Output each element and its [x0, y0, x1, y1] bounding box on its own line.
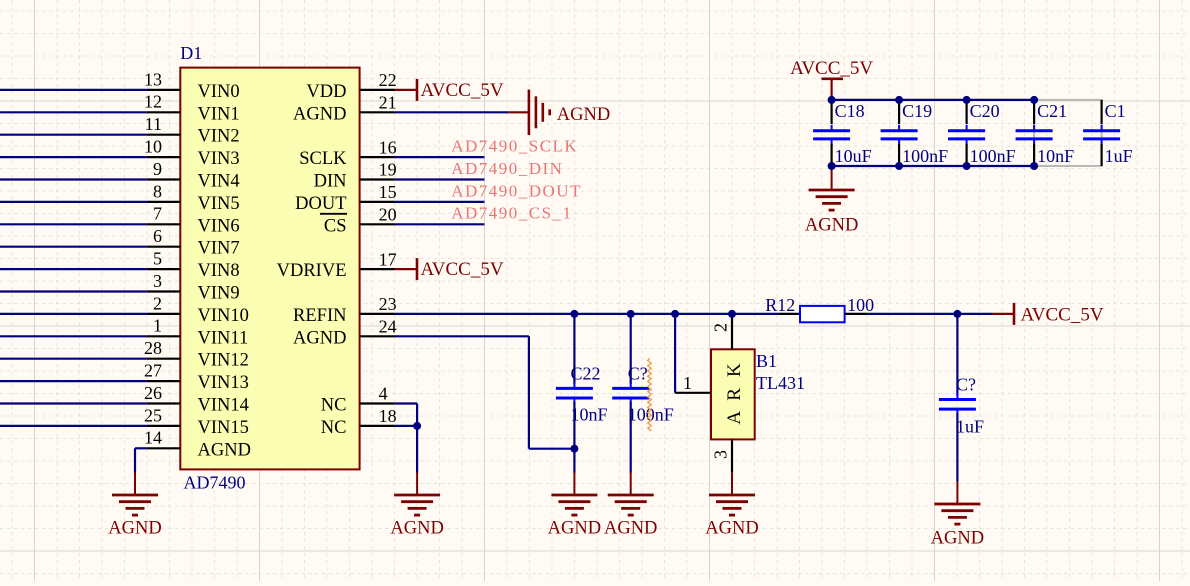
svg-text:AGND: AGND	[390, 519, 443, 539]
pin name VIN6	[198, 216, 240, 236]
svg-text:VIN9: VIN9	[198, 284, 240, 304]
label AVCC_5V (pin 17)	[421, 259, 504, 280]
pin number 26	[144, 383, 162, 403]
svg-text:VDRIVE: VDRIVE	[277, 261, 347, 281]
pin name DOUT	[295, 194, 346, 214]
wire pin24 AGND path	[395, 336, 575, 448]
svg-text:15: 15	[379, 182, 397, 202]
svg-text:7: 7	[153, 204, 162, 224]
junction (832,100)	[828, 96, 836, 104]
wire pin14 to AGND	[135, 448, 147, 472]
wire REFIN right of R12	[867, 313, 992, 315]
svg-text:27: 27	[144, 361, 162, 381]
designator D1	[180, 43, 202, 63]
pin name VIN12	[198, 351, 249, 371]
pin 27 (VIN13)	[147, 380, 181, 382]
pin name VIN7	[198, 239, 240, 259]
junction (957,314)	[953, 310, 961, 318]
resistor R12	[779, 306, 867, 322]
svg-text:12: 12	[144, 92, 162, 112]
svg-text:100nF: 100nF	[902, 146, 948, 166]
pin 3 (TL431 anode)	[731, 439, 733, 472]
pin number 18	[379, 406, 397, 426]
label AVCC_5V (right)	[1021, 305, 1104, 326]
pin number 19	[379, 160, 397, 180]
capacitor C1	[1083, 100, 1120, 166]
svg-text:C?: C?	[628, 364, 648, 384]
junction (574,449)	[570, 445, 578, 453]
svg-text:SCLK: SCLK	[299, 149, 347, 169]
pin number 7	[153, 204, 162, 224]
svg-text:C21: C21	[1037, 101, 1067, 121]
capacitor C? 1uF	[939, 314, 976, 482]
pin number 12	[144, 92, 162, 112]
svg-text:NC: NC	[321, 396, 347, 416]
pin number 9	[153, 159, 162, 179]
power port AVCC_5V (right)	[993, 303, 1015, 325]
pin name VIN1	[198, 104, 240, 124]
wire net VIN1	[0, 111, 147, 113]
designator C?	[628, 364, 648, 384]
wire net VIN4	[0, 178, 147, 180]
svg-text:10nF: 10nF	[1037, 146, 1074, 166]
svg-text:VDD: VDD	[306, 82, 346, 102]
designator C18	[835, 101, 865, 121]
pin number 1	[153, 316, 162, 336]
pin 1 (VIN11)	[147, 335, 181, 337]
svg-text:C?: C?	[956, 375, 976, 395]
pin name VIN8	[198, 261, 240, 281]
error squiggle at C?	[648, 358, 652, 431]
power port AVCC_5V (top)	[822, 79, 844, 100]
wire net VIN8	[0, 268, 147, 270]
label AGND (NC)	[390, 519, 443, 539]
pin name VIN14	[198, 396, 249, 416]
junction (631,314)	[627, 310, 635, 318]
ground AGND (1uF)	[934, 482, 980, 525]
svg-text:26: 26	[144, 383, 162, 403]
svg-text:TL431: TL431	[756, 373, 805, 393]
svg-text:21: 21	[379, 93, 397, 113]
svg-text:AGND: AGND	[293, 328, 346, 348]
svg-text:C1: C1	[1105, 101, 1126, 121]
pin number 5	[153, 249, 162, 269]
pin 10 (VIN3)	[147, 156, 181, 158]
junction (574,314)	[570, 310, 578, 318]
svg-text:10uF: 10uF	[835, 146, 872, 166]
pin number 11	[145, 114, 162, 134]
wire net VIN7	[0, 246, 147, 248]
pin 2 (TL431 cathode)	[731, 314, 733, 349]
svg-text:24: 24	[379, 317, 397, 337]
junction (899,166)	[895, 162, 903, 170]
pin 17 (VDRIVE)	[360, 268, 395, 270]
svg-text:AGND: AGND	[198, 440, 251, 460]
value 100nF	[902, 146, 948, 166]
net label AD7490_DOUT	[451, 181, 582, 200]
pin 13 (VIN0)	[147, 89, 181, 91]
svg-text:AVCC_5V: AVCC_5V	[790, 58, 873, 79]
ground AGND (C22)	[551, 473, 597, 516]
svg-text:10nF: 10nF	[571, 405, 608, 425]
svg-text:AGND: AGND	[604, 519, 657, 539]
pin name VIN9	[198, 284, 240, 304]
transistor B1 TL431 body	[711, 349, 755, 439]
svg-text:AD7490_CS_1: AD7490_CS_1	[451, 204, 572, 223]
svg-text:17: 17	[379, 249, 397, 269]
pin number 4	[379, 384, 388, 404]
TL431 internal text ARK	[724, 360, 745, 425]
pin name VDD	[306, 82, 346, 102]
pin 4 (NC)	[360, 402, 395, 404]
value 1uF	[956, 417, 984, 437]
pin 20 (CS)	[360, 223, 395, 225]
junction (417,426)	[413, 422, 421, 430]
svg-text:B1: B1	[756, 351, 777, 371]
svg-text:D1: D1	[180, 43, 202, 63]
svg-text:20: 20	[379, 205, 397, 225]
wire net VIN2	[0, 134, 147, 136]
label AVCC_5V (pin 22)	[421, 80, 504, 101]
svg-text:1: 1	[153, 316, 162, 336]
svg-text:AGND: AGND	[548, 519, 601, 539]
svg-text:C22: C22	[571, 364, 601, 384]
svg-text:AGND: AGND	[557, 105, 610, 125]
wire NC pins	[395, 404, 417, 473]
pin number 27	[144, 361, 162, 381]
svg-text:6: 6	[153, 226, 162, 246]
label AVCC_5V (top)	[790, 58, 873, 79]
pin number 10	[144, 137, 162, 157]
pin number 23	[379, 294, 397, 314]
gray box around C1	[1034, 100, 1102, 166]
junction (1034,100)	[1030, 96, 1038, 104]
svg-text:VIN6: VIN6	[198, 216, 240, 236]
svg-text:2: 2	[711, 323, 731, 332]
pin 11 (VIN2)	[147, 134, 181, 136]
ground AGND (TL431)	[709, 472, 755, 515]
junction (967,100)	[963, 96, 971, 104]
svg-text:VIN2: VIN2	[198, 127, 240, 147]
wire net VIN15	[0, 425, 147, 427]
pin number 21	[379, 93, 397, 113]
pin 21 (AGND)	[360, 111, 395, 113]
svg-text:18: 18	[379, 406, 397, 426]
svg-text:100nF: 100nF	[970, 146, 1016, 166]
svg-text:C18: C18	[835, 101, 865, 121]
ground AGND (C18 bank)	[809, 166, 855, 210]
designator C19	[902, 101, 932, 121]
pin name VIN2	[198, 127, 240, 147]
pin name VIN10	[198, 306, 249, 326]
pin name CS	[324, 216, 347, 236]
svg-text:8: 8	[153, 181, 162, 201]
pin number 1	[683, 373, 692, 393]
ground AGND (pin 21, rotated)	[508, 90, 550, 135]
value 1uF	[1105, 146, 1133, 166]
ground AGND (C? 100nF)	[608, 473, 654, 516]
pin number 22	[379, 70, 397, 90]
svg-text:22: 22	[379, 70, 397, 90]
junction (899,100)	[895, 96, 903, 104]
svg-text:AD7490_DOUT: AD7490_DOUT	[451, 181, 582, 200]
pin number 2	[153, 293, 162, 313]
wire net VIN3	[0, 156, 147, 158]
pin number 3	[153, 271, 162, 291]
junction (967,166)	[963, 162, 971, 170]
pin 22 (VDD)	[360, 89, 395, 91]
designator C22	[571, 364, 601, 384]
value TL431	[756, 373, 805, 393]
pin 26 (VIN14)	[147, 402, 181, 404]
pin name AGND	[293, 104, 346, 124]
wire net AD7490_DOUT	[395, 201, 485, 203]
svg-text:VIN1: VIN1	[198, 104, 240, 124]
svg-text:4: 4	[379, 384, 388, 404]
wire net VIN5	[0, 201, 147, 203]
pin number 3 (rotated)	[711, 450, 731, 459]
wire top bus	[832, 99, 1035, 101]
junction (1034,166)	[1030, 162, 1038, 170]
pin name VIN11	[198, 328, 249, 348]
pin number 15	[379, 182, 397, 202]
value 10uF	[835, 146, 872, 166]
wire net REFIN	[395, 313, 779, 315]
overbar for CS pin	[320, 213, 347, 215]
svg-text:AVCC_5V: AVCC_5V	[1021, 305, 1104, 326]
pin 15 (DOUT)	[360, 201, 395, 203]
svg-text:28: 28	[144, 338, 162, 358]
designator B1	[756, 351, 777, 371]
svg-text:9: 9	[153, 159, 162, 179]
designator C20	[970, 101, 1000, 121]
pin name VIN0	[198, 82, 240, 102]
ground AGND (pin 14)	[112, 473, 158, 516]
net label AD7490_DIN	[451, 159, 563, 178]
pin 18 (NC)	[360, 425, 395, 427]
svg-text:AGND: AGND	[705, 519, 758, 539]
wire net VIN10	[0, 313, 147, 315]
svg-text:DOUT: DOUT	[295, 194, 346, 214]
pin number 17	[379, 249, 397, 269]
svg-text:VIN11: VIN11	[198, 328, 249, 348]
pin number 13	[144, 69, 162, 89]
svg-text:VIN10: VIN10	[198, 306, 249, 326]
wire net VIN0	[0, 89, 147, 91]
value 100nF	[628, 405, 674, 425]
pin number 2 (rotated)	[711, 323, 731, 332]
pin name NC	[321, 396, 347, 416]
pin number 28	[144, 338, 162, 358]
pin name VDRIVE	[277, 261, 347, 281]
svg-text:2: 2	[153, 293, 162, 313]
svg-text:11: 11	[145, 114, 162, 134]
junction (675,314)	[671, 310, 679, 318]
pin 28 (VIN12)	[147, 358, 181, 360]
label AGND (pin 14)	[108, 519, 161, 539]
power port AVCC_5V (pin 22)	[395, 79, 417, 101]
value 100	[847, 295, 874, 315]
svg-text:1: 1	[683, 373, 692, 393]
svg-text:VIN4: VIN4	[198, 172, 240, 192]
capacitor C22	[556, 314, 593, 449]
pin number 14	[144, 428, 162, 448]
designator C? (1uF)	[956, 375, 976, 395]
wire net VIN12	[0, 358, 147, 360]
pin 14 (AGND)	[147, 447, 181, 449]
pin 2 (VIN10)	[147, 313, 181, 315]
pin 3 (VIN9)	[147, 290, 181, 292]
designator C1	[1105, 101, 1126, 121]
ground AGND (NC)	[394, 473, 440, 516]
pin name AGND	[293, 328, 346, 348]
pin number 20	[379, 205, 397, 225]
svg-text:14: 14	[144, 428, 162, 448]
value AD7490	[184, 473, 246, 493]
svg-text:VIN12: VIN12	[198, 351, 249, 371]
svg-text:3: 3	[153, 271, 162, 291]
capacitor C19	[881, 100, 918, 166]
wire pin21 AGND	[395, 111, 508, 113]
label AGND (TL431)	[705, 519, 758, 539]
svg-text:VIN15: VIN15	[198, 418, 249, 438]
IC D1 AD7490 body	[180, 68, 359, 470]
svg-text:AGND: AGND	[931, 529, 984, 549]
pin name VIN15	[198, 418, 249, 438]
pin number 25	[144, 405, 162, 425]
svg-text:C19: C19	[902, 101, 932, 121]
pin name SCLK	[299, 149, 347, 169]
capacitor C? 100nF	[612, 314, 649, 473]
wire net VIN14	[0, 402, 147, 404]
pin name VIN3	[198, 149, 240, 169]
svg-text:1uF: 1uF	[956, 417, 984, 437]
wire net VIN11	[0, 335, 147, 337]
pin 9 (VIN4)	[147, 178, 181, 180]
pin name NC	[321, 418, 347, 438]
svg-text:AD7490: AD7490	[184, 473, 246, 493]
label AGND (C? 100nF)	[604, 519, 657, 539]
wire net AD7490_CS_1	[395, 223, 485, 225]
pin number 6	[153, 226, 162, 246]
svg-text:NC: NC	[321, 418, 347, 438]
svg-text:C20: C20	[970, 101, 1000, 121]
wire net VIN9	[0, 290, 147, 292]
svg-text:AGND: AGND	[805, 216, 858, 236]
svg-text:CS: CS	[324, 216, 347, 236]
svg-text:AD7490_DIN: AD7490_DIN	[451, 159, 563, 178]
svg-text:AVCC_5V: AVCC_5V	[421, 80, 504, 101]
net label AD7490_SCLK	[451, 137, 578, 156]
pin 23 (REFIN)	[360, 313, 395, 315]
junction (832,166)	[828, 162, 836, 170]
svg-text:R12: R12	[765, 295, 795, 315]
pin 7 (VIN6)	[147, 223, 181, 225]
value 10nF	[571, 405, 608, 425]
svg-text:10: 10	[144, 137, 162, 157]
pin 16 (SCLK)	[360, 156, 395, 158]
pin name VIN5	[198, 194, 240, 214]
value 10nF	[1037, 146, 1074, 166]
svg-text:VIN7: VIN7	[198, 239, 240, 259]
svg-text:AVCC_5V: AVCC_5V	[421, 259, 504, 280]
svg-text:AGND: AGND	[108, 519, 161, 539]
designator C21	[1037, 101, 1067, 121]
svg-text:REFIN: REFIN	[293, 306, 346, 326]
capacitor C18	[813, 100, 850, 166]
label AGND (pin 21)	[557, 105, 610, 125]
svg-text:19: 19	[379, 160, 397, 180]
wire net AD7490_SCLK	[395, 156, 485, 158]
wire net VIN13	[0, 380, 147, 382]
pin number 8	[153, 181, 162, 201]
svg-text:VIN13: VIN13	[198, 373, 249, 393]
pin name VIN4	[198, 172, 240, 192]
pin name REFIN	[293, 306, 346, 326]
pin 1 (TL431 ref)	[675, 392, 711, 394]
value 100nF	[970, 146, 1016, 166]
pin 24 (AGND)	[360, 335, 395, 337]
pin number 24	[379, 317, 397, 337]
label AGND (bank)	[805, 216, 858, 236]
wire REFIN branch to TL431 pin 1	[674, 314, 676, 393]
wire net VIN6	[0, 223, 147, 225]
capacitor C21	[1016, 100, 1053, 166]
svg-text:VIN3: VIN3	[198, 149, 240, 169]
pin 8 (VIN5)	[147, 201, 181, 203]
svg-text:3: 3	[711, 450, 731, 459]
svg-text:VIN5: VIN5	[198, 194, 240, 214]
svg-text:16: 16	[379, 137, 397, 157]
svg-text:VIN8: VIN8	[198, 261, 240, 281]
pin name VIN13	[198, 373, 249, 393]
svg-text:AGND: AGND	[293, 104, 346, 124]
wire bottom bus	[832, 165, 1035, 167]
pin name DIN	[314, 172, 347, 192]
svg-text:1uF: 1uF	[1105, 146, 1133, 166]
svg-text:100: 100	[847, 295, 874, 315]
svg-text:13: 13	[144, 69, 162, 89]
junction (732,314)	[728, 310, 736, 318]
pin 6 (VIN7)	[147, 246, 181, 248]
pin 12 (VIN1)	[147, 111, 181, 113]
designator R12	[765, 295, 795, 315]
svg-text:AD7490_SCLK: AD7490_SCLK	[451, 137, 578, 156]
pin number 16	[379, 137, 397, 157]
power port AVCC_5V (pin 17)	[395, 258, 417, 280]
pin 5 (VIN8)	[147, 268, 181, 270]
svg-text:25: 25	[144, 405, 162, 425]
capacitor C20	[948, 100, 985, 166]
label AGND (C22)	[548, 519, 601, 539]
svg-text:5: 5	[153, 249, 162, 269]
net label AD7490_CS_1	[451, 204, 572, 223]
pin name AGND	[198, 440, 251, 460]
svg-text:VIN0: VIN0	[198, 82, 240, 102]
pin 25 (VIN15)	[147, 425, 181, 427]
svg-text:DIN: DIN	[314, 172, 347, 192]
wire net AD7490_DIN	[395, 178, 485, 180]
svg-text:VIN14: VIN14	[198, 396, 249, 416]
svg-text:23: 23	[379, 294, 397, 314]
svg-text:A R K: A R K	[724, 360, 745, 425]
label AGND (1uF)	[931, 529, 984, 549]
wire C22 to ground	[573, 449, 575, 473]
pin 19 (DIN)	[360, 178, 395, 180]
